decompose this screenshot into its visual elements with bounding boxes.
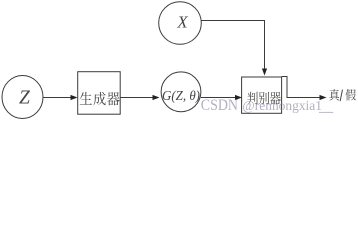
svg-text:Z: Z xyxy=(19,88,30,109)
svg-text:G(Z, θ): G(Z, θ) xyxy=(162,88,200,103)
svg-text:CSDN: CSDN xyxy=(201,97,238,114)
svg-text:X: X xyxy=(176,13,188,32)
svg-text:@renhongxia1: @renhongxia1 xyxy=(242,98,322,113)
